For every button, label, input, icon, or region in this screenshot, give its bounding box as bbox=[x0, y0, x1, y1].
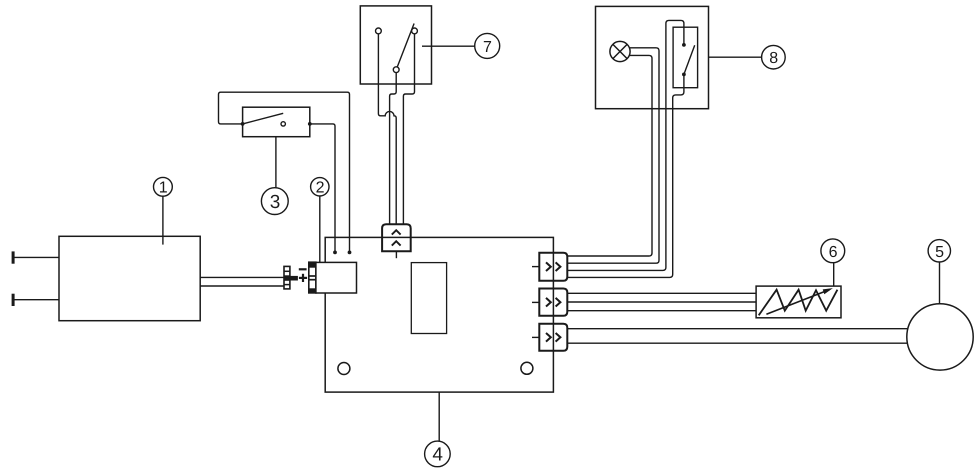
label 1 bbox=[154, 177, 173, 196]
wire: lamp upper lead to connector K1 (pin 2) bbox=[567, 48, 659, 263]
K2 chevron (right) bbox=[556, 298, 561, 307]
wire: lamp lower lead to connector K1 (pin 1) bbox=[567, 55, 652, 256]
connector K2 on board right edge bbox=[539, 289, 567, 316]
K3 chevron (right) bbox=[556, 333, 561, 342]
connector K3 on board right edge bbox=[539, 324, 567, 351]
wire adapter to DC plug (lower) bbox=[200, 285, 284, 287]
component 7: selector switch box bbox=[360, 6, 431, 84]
connector J-top (plug of switch 7) on board top edge bbox=[382, 224, 411, 251]
mounting hole (right) bbox=[521, 362, 533, 374]
lamp L1 (circle with X) bbox=[610, 41, 630, 61]
K2 stub wire bbox=[532, 301, 539, 303]
IC / relay rectangle on board bbox=[411, 263, 446, 334]
connector K1 on board right edge bbox=[539, 253, 567, 281]
wire: K2 pin 1 to heater 6 bbox=[567, 292, 756, 294]
mounting hole (left) bbox=[338, 363, 350, 375]
polarity label + (plus) bbox=[299, 274, 307, 282]
svg-text:1: 1 bbox=[159, 180, 168, 197]
K1 chevron (right) bbox=[556, 262, 561, 271]
wire: switch 7 left terminal down with hop to connector J-top bbox=[378, 34, 396, 224]
stub wire below connector J-top bbox=[395, 251, 397, 258]
label 3 leader line bbox=[275, 137, 277, 188]
wire: switch 8 bottom contact to connector K1 (pin 4) bbox=[567, 74, 684, 277]
wire adapter to DC plug (upper) bbox=[200, 276, 284, 278]
component 5: motor bbox=[907, 304, 973, 370]
label 2 leader line bbox=[319, 196, 321, 262]
svg-text:6: 6 bbox=[829, 244, 838, 261]
switch 7 terminal (right) bbox=[412, 28, 418, 34]
switch 7 terminal (left) bbox=[376, 28, 382, 34]
svg-text:5: 5 bbox=[935, 244, 944, 261]
chevron pin mark (lower) bbox=[392, 241, 401, 245]
DC jack socket strip on board edge bbox=[309, 262, 316, 293]
label 2 bbox=[311, 178, 329, 197]
DC plug pin bbox=[290, 276, 298, 281]
mains plug prong (bottom) bbox=[12, 294, 59, 306]
switch S3 contacts bbox=[241, 113, 312, 126]
svg-text:3: 3 bbox=[270, 192, 281, 213]
wire: switch 3 left terminal loop to connector 2 right pin bbox=[219, 92, 350, 252]
K1 stub wire bbox=[532, 266, 539, 268]
junction dot on connector 2 (left pin) bbox=[333, 251, 337, 255]
label 5 bbox=[928, 240, 950, 262]
component 4: control board outline bbox=[325, 237, 553, 392]
switch 8 contact dots bbox=[682, 43, 686, 76]
wire: switch 7 right terminal to connector J-top bbox=[403, 34, 414, 224]
label 4 leader line bbox=[438, 392, 440, 441]
label 8 bbox=[762, 45, 786, 69]
component 8: lamp + switch assembly box bbox=[596, 6, 709, 108]
wire: switch 7 common terminal to connector J-top bbox=[390, 73, 397, 225]
wire: K3 pin 2 to motor 5 bbox=[567, 342, 908, 344]
junction dot on connector 2 (right pin) bbox=[348, 251, 352, 255]
switch 8 inner box bbox=[673, 27, 698, 87]
label 4 bbox=[425, 441, 451, 467]
label 8 leader line bbox=[709, 56, 762, 58]
label 3 bbox=[261, 188, 288, 215]
svg-text:4: 4 bbox=[432, 445, 443, 466]
wire: K3 pin 1 to motor 5 bbox=[567, 328, 908, 330]
K1 chevron (left) bbox=[546, 262, 551, 271]
switch 8 lever bbox=[684, 45, 695, 74]
polarity label - (minus) bbox=[299, 268, 307, 270]
component 2: power inlet connector box bbox=[316, 262, 357, 293]
mains plug prong (top) bbox=[12, 251, 59, 263]
label 7 leader line bbox=[422, 45, 475, 47]
label 6 bbox=[821, 239, 845, 263]
wire: switch 8 top contact to connector K1 (pin 3) bbox=[567, 20, 684, 270]
label 6 leader line bbox=[833, 263, 835, 286]
component 6: heater element box bbox=[756, 286, 841, 318]
component 1: AC adapter box bbox=[59, 236, 200, 320]
wire: K2 pin 2 to heater 6 bbox=[567, 301, 756, 303]
label 1 leader line bbox=[162, 196, 164, 244]
heater resistive zigzag bbox=[759, 290, 838, 316]
thermostat arrow across heater bbox=[766, 288, 833, 314]
switch 7 lever bbox=[397, 24, 414, 68]
wire: K2 pin 3 to heater 6 bbox=[567, 310, 756, 312]
K3 chevron (left) bbox=[546, 333, 551, 342]
svg-text:2: 2 bbox=[316, 180, 325, 197]
svg-text:8: 8 bbox=[769, 50, 778, 67]
DC plug body bbox=[284, 266, 291, 289]
svg-text:7: 7 bbox=[483, 39, 492, 56]
K2 chevron (left) bbox=[546, 298, 551, 307]
label 5 leader line bbox=[939, 262, 941, 304]
K3 stub wire bbox=[532, 336, 539, 338]
chevron pin mark (upper) bbox=[392, 230, 401, 234]
component 3: door switch box bbox=[243, 107, 310, 137]
switch 7 common terminal bbox=[393, 67, 399, 73]
label 7 bbox=[475, 33, 500, 58]
wire: switch 3 right terminal to connector 2 left pin bbox=[310, 124, 335, 253]
